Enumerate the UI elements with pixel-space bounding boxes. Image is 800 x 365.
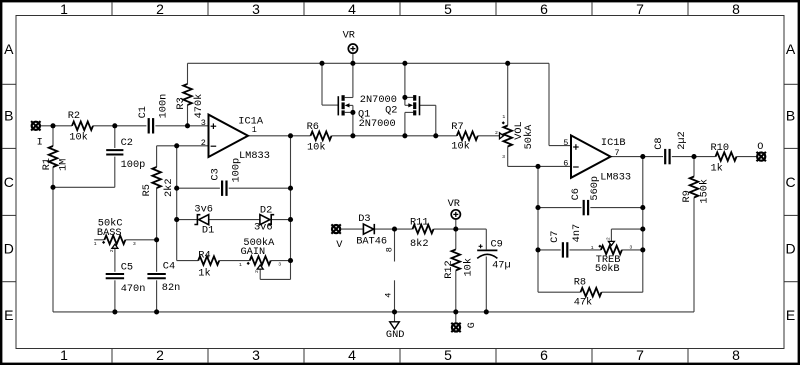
- svg-text:3: 3: [502, 154, 505, 160]
- svg-text:3v6: 3v6: [254, 221, 273, 233]
- node R1-C2 bottom: [50, 185, 55, 190]
- svg-text:R4: R4: [198, 249, 210, 261]
- svg-text:4: 4: [348, 1, 356, 17]
- node Q2 source-rail: [402, 133, 407, 138]
- svg-text:8: 8: [732, 1, 740, 17]
- svg-text:LM833: LM833: [600, 172, 631, 184]
- svg-text:R1: R1: [41, 158, 53, 170]
- capacitor C7: [549, 224, 583, 258]
- power symbol VR bottom: [448, 198, 461, 219]
- svg-text:50kB: 50kB: [595, 263, 620, 275]
- svg-text:470k: 470k: [193, 94, 205, 119]
- node TREB wiper: [640, 227, 645, 232]
- svg-text:D3: D3: [358, 213, 370, 225]
- resistor R10: [711, 142, 737, 175]
- svg-text:2: 2: [495, 130, 498, 136]
- svg-text:C7: C7: [549, 231, 561, 243]
- transistor Q2: [385, 95, 419, 117]
- svg-text:D: D: [4, 241, 14, 257]
- resistor R5: [141, 167, 175, 197]
- wire IC1B output line: [612, 156, 757, 158]
- op-amp IC1A: [201, 115, 270, 163]
- capacitor C3: [209, 158, 242, 196]
- node R2-C2: [112, 123, 117, 128]
- node D2 right: [288, 217, 293, 222]
- svg-text:GAIN: GAIN: [241, 246, 266, 258]
- svg-text:O: O: [757, 141, 763, 153]
- svg-text:5: 5: [563, 138, 568, 148]
- svg-text:150k: 150k: [699, 179, 711, 204]
- svg-text:3: 3: [629, 245, 632, 251]
- svg-text:3: 3: [201, 118, 206, 128]
- potentiometer VOL: [495, 114, 535, 160]
- svg-text:6: 6: [563, 159, 568, 169]
- resistor R11: [410, 217, 434, 250]
- wire pin2 vertical: [176, 146, 178, 261]
- wire R1 leads: [52, 126, 54, 188]
- svg-text:2N7000: 2N7000: [360, 94, 397, 106]
- svg-text:R10: R10: [711, 142, 730, 154]
- node C9-gnd: [484, 309, 489, 314]
- node pin6-VOL: [535, 164, 540, 169]
- wire C9 branch: [456, 229, 487, 312]
- wire IC1 pin8 stub: [394, 229, 396, 261]
- svg-text:4: 4: [348, 347, 356, 363]
- wire output right vertical: [642, 157, 644, 293]
- svg-text:10k: 10k: [463, 258, 475, 277]
- svg-text:R5: R5: [141, 184, 153, 196]
- wire rail to pin5: [549, 63, 571, 145]
- potentiometer BASS: [94, 217, 136, 252]
- op-amp IC1B: [563, 135, 631, 183]
- connector I (input): [31, 121, 43, 148]
- node rail-VR1: [350, 61, 355, 66]
- svg-text:1: 1: [60, 1, 68, 17]
- wire R8 line: [538, 291, 643, 293]
- svg-text:D1: D1: [202, 225, 214, 237]
- potentiometer TREB: [591, 237, 633, 275]
- svg-text:1: 1: [591, 245, 594, 251]
- column labels bottom: [60, 347, 740, 363]
- svg-text:LM833: LM833: [239, 150, 270, 162]
- svg-text:A: A: [786, 41, 796, 57]
- svg-text:1: 1: [502, 114, 505, 120]
- transistor Q1: [338, 95, 370, 121]
- svg-text:3: 3: [252, 1, 260, 17]
- node IC1B out: [640, 154, 645, 159]
- svg-text:R6: R6: [307, 121, 319, 133]
- svg-text:R2: R2: [68, 110, 80, 122]
- svg-text:2: 2: [201, 138, 206, 148]
- wire Q2 body: [405, 97, 409, 105]
- svg-text:BAT46: BAT46: [356, 235, 387, 247]
- wire VR2 stem: [455, 219, 457, 229]
- svg-text:8: 8: [732, 347, 740, 363]
- svg-text:I: I: [37, 136, 43, 148]
- ground: [386, 322, 405, 341]
- node C5-gnd: [112, 309, 117, 314]
- node Q1 source-rail: [350, 133, 355, 138]
- wire VR1 stem: [352, 53, 354, 63]
- svg-text:47µ: 47µ: [492, 260, 511, 272]
- resistor R4: [198, 249, 219, 279]
- wire C6 line: [538, 207, 643, 209]
- wire ground rail: [53, 311, 694, 313]
- wire C7 line: [538, 249, 643, 251]
- svg-text:C8: C8: [653, 137, 665, 149]
- node Q2 gate-rail: [433, 133, 438, 138]
- svg-text:2: 2: [156, 347, 164, 363]
- resistor R12: [443, 249, 475, 278]
- svg-text:6: 6: [540, 347, 548, 363]
- svg-text:6: 6: [540, 1, 548, 17]
- svg-text:7: 7: [636, 1, 644, 17]
- wire G stub: [455, 312, 457, 323]
- node C7 left: [535, 247, 540, 252]
- svg-text:100p: 100p: [121, 159, 146, 171]
- wire BASS leads: [94, 239, 156, 241]
- svg-text:4: 4: [383, 293, 393, 298]
- svg-text:R11: R11: [410, 217, 429, 229]
- node C6 left: [535, 205, 540, 210]
- svg-text:R7: R7: [451, 121, 463, 133]
- capacitor C4: [147, 261, 180, 295]
- wire input line: [40, 125, 208, 127]
- resistor R6: [307, 121, 332, 154]
- resistor R7: [451, 121, 478, 153]
- svg-text:82n: 82n: [162, 282, 181, 294]
- svg-text:3: 3: [133, 241, 136, 247]
- node GAIN right: [288, 258, 293, 263]
- svg-text:1: 1: [252, 125, 257, 135]
- wire C2 leads: [53, 126, 115, 188]
- svg-text:2: 2: [156, 1, 164, 17]
- svg-text:10k: 10k: [451, 141, 470, 153]
- svg-text:1M: 1M: [58, 159, 70, 171]
- wire IC1B pin6 line: [538, 165, 571, 167]
- svg-text:5: 5: [444, 1, 452, 17]
- node C3 right: [288, 186, 293, 191]
- wire R3 top lead: [187, 63, 189, 84]
- node C3 left: [174, 186, 179, 191]
- wire left ground drop: [52, 187, 54, 312]
- resistor R2: [68, 110, 93, 143]
- svg-text:C9: C9: [491, 238, 503, 250]
- node C6 right: [640, 205, 645, 210]
- svg-text:8: 8: [384, 247, 394, 252]
- node R11-R12: [453, 227, 458, 232]
- svg-text:1: 1: [94, 241, 97, 247]
- wire IC1 pin4 stub: [394, 280, 396, 321]
- svg-text:R8: R8: [574, 276, 586, 288]
- svg-text:3: 3: [278, 262, 281, 268]
- svg-text:D2: D2: [260, 205, 272, 217]
- svg-text:C: C: [786, 174, 796, 190]
- wire R3 bottom lead: [187, 105, 189, 126]
- wire BASS wiper to C5: [114, 248, 116, 272]
- node Q1 body-source: [350, 110, 355, 115]
- svg-text:4n7: 4n7: [571, 224, 583, 243]
- svg-text:R9: R9: [681, 190, 693, 202]
- connector V: [331, 224, 343, 251]
- zener diode D2: [254, 205, 274, 234]
- wire treble left vertical: [537, 166, 539, 292]
- svg-text:C5: C5: [121, 262, 133, 274]
- svg-text:47k: 47k: [574, 297, 593, 309]
- svg-text:2: 2: [109, 249, 115, 252]
- node rail-VOL: [505, 61, 510, 66]
- wire C4 bottom lead: [156, 280, 158, 312]
- svg-text:Q2: Q2: [385, 105, 397, 117]
- svg-text:C4: C4: [163, 261, 175, 273]
- svg-text:2k2: 2k2: [163, 178, 175, 197]
- wire Q2 source: [405, 112, 413, 135]
- connector G (ground): [451, 322, 478, 332]
- column labels top: [60, 1, 740, 17]
- svg-text:2N7000: 2N7000: [359, 118, 396, 130]
- capacitor C8: [653, 131, 688, 164]
- node Q2 drain-body: [402, 95, 407, 100]
- svg-text:2: 2: [254, 270, 260, 273]
- svg-text:E: E: [786, 307, 795, 323]
- node C8-R9: [691, 154, 696, 159]
- svg-text:3v6: 3v6: [194, 203, 213, 215]
- wire R12 leads: [455, 229, 457, 312]
- svg-text:100n: 100n: [158, 94, 170, 119]
- capacitor C2: [106, 137, 145, 171]
- wire GAIN wiper loop: [260, 261, 290, 280]
- wire Q2 drain: [405, 63, 413, 97]
- svg-text:7: 7: [615, 148, 620, 158]
- svg-text:1: 1: [239, 262, 242, 268]
- svg-text:IC1B: IC1B: [601, 137, 626, 149]
- wire VR rail: [188, 62, 550, 64]
- svg-text:50kA: 50kA: [523, 124, 535, 150]
- capacitor C6: [570, 176, 601, 215]
- resistor R3: [175, 84, 205, 119]
- svg-text:G: G: [466, 322, 478, 328]
- svg-text:470n: 470n: [121, 283, 146, 295]
- svg-text:2µ2: 2µ2: [676, 131, 688, 150]
- node R3-pin3: [185, 123, 190, 128]
- connector O (output): [757, 141, 766, 161]
- svg-text:C2: C2: [121, 137, 133, 149]
- node D1 left: [174, 217, 179, 222]
- zener diode D1: [194, 203, 214, 236]
- node pin2-R5: [174, 143, 179, 148]
- wire IC1A pin2 line: [157, 145, 209, 147]
- svg-text:1: 1: [60, 347, 68, 363]
- row labels left: [4, 41, 14, 323]
- svg-text:C1: C1: [137, 106, 149, 118]
- wire C3 line: [177, 187, 291, 189]
- svg-text:BASS: BASS: [97, 227, 122, 239]
- capacitor C9: [477, 238, 510, 271]
- node D3-R11: [392, 227, 397, 232]
- svg-text:VR: VR: [448, 198, 460, 210]
- wire D1 D2 line: [177, 219, 291, 221]
- svg-text:3: 3: [252, 347, 260, 363]
- node rail-Q2: [402, 61, 407, 66]
- svg-text:C: C: [4, 174, 14, 190]
- node R12-gnd: [453, 309, 458, 314]
- wire R5 to BASS to C4: [156, 188, 158, 272]
- potentiometer GAIN: [239, 237, 281, 273]
- capacitor C1: [137, 94, 170, 134]
- power symbol VR top: [343, 29, 358, 53]
- wire Q2 gate wire: [420, 105, 436, 136]
- svg-text:R3: R3: [175, 97, 187, 109]
- svg-text:D: D: [786, 241, 796, 257]
- capacitor C5: [106, 262, 146, 295]
- wire V to D3 to R11: [341, 228, 456, 230]
- wire R4 GAIN line: [177, 260, 291, 262]
- svg-text:2: 2: [605, 237, 611, 240]
- node C4-gnd: [154, 309, 159, 314]
- svg-text:GND: GND: [386, 329, 405, 341]
- svg-text:C6: C6: [570, 188, 582, 200]
- transistor value labels: [359, 94, 397, 130]
- svg-text:C3: C3: [209, 168, 221, 180]
- svg-text:B: B: [786, 107, 795, 123]
- svg-text:V: V: [336, 239, 343, 251]
- resistor R1: [41, 146, 70, 171]
- node rail-Q1gate: [319, 61, 324, 66]
- svg-text:1k: 1k: [198, 268, 210, 280]
- node BASS right: [154, 237, 159, 242]
- svg-text:E: E: [4, 307, 13, 323]
- svg-text:5: 5: [444, 347, 452, 363]
- diode D3: [356, 213, 387, 248]
- wire R5 top lead: [156, 146, 158, 167]
- wire R9 leads: [693, 157, 695, 312]
- node TREB right: [640, 247, 645, 252]
- svg-text:8k2: 8k2: [410, 238, 429, 250]
- svg-text:7: 7: [636, 347, 644, 363]
- svg-text:VR: VR: [343, 29, 355, 41]
- wire IC1A output line: [248, 135, 499, 137]
- wire VOL bottom lead: [508, 147, 538, 167]
- wire feedback vertical: [290, 136, 292, 261]
- svg-text:1k: 1k: [711, 163, 723, 175]
- svg-text:10k: 10k: [307, 142, 326, 154]
- wire C5 bottom lead: [114, 280, 116, 312]
- node IC1A out: [288, 133, 293, 138]
- resistor R8: [574, 276, 602, 308]
- svg-text:R12: R12: [443, 260, 455, 279]
- svg-text:B: B: [4, 107, 13, 123]
- row labels right: [786, 41, 796, 323]
- node input-R1: [50, 123, 55, 128]
- svg-text:A: A: [4, 41, 14, 57]
- wire TREB wiper loop: [611, 229, 642, 242]
- wire Q1 source: [345, 112, 353, 135]
- wire VOL top lead: [507, 63, 509, 125]
- resistor R9: [681, 177, 711, 204]
- wire Q1 drain: [345, 63, 353, 97]
- node pin4-gnd: [392, 309, 397, 314]
- wire Q1 body: [349, 105, 353, 112]
- wire Q1 gate wire: [322, 63, 338, 105]
- svg-text:10k: 10k: [69, 132, 88, 144]
